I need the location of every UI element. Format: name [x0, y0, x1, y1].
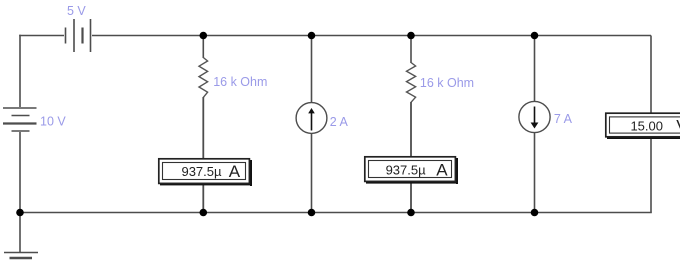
wire from 2A source down to bottom wire — [311, 133, 313, 213]
ground — [4, 253, 38, 259]
current source 2A (arrow up) with value label — [296, 103, 348, 134]
svg-text:2 A: 2 A — [330, 115, 349, 129]
current source 7A (arrow down) with value label — [519, 101, 573, 132]
svg-text:15.00: 15.00 — [630, 119, 663, 134]
node bottom of R2 branch — [407, 209, 415, 217]
battery 5V (horizontal) with value label — [66, 4, 91, 52]
wire ground stem — [19, 213, 21, 253]
wire top-left horizontal from corner to 5V battery — [19, 35, 64, 37]
node bottom of 7A branch — [531, 209, 539, 217]
wire from 7A source down to bottom wire — [534, 133, 536, 213]
svg-text:A: A — [229, 162, 241, 181]
wire from ammeter (left) down to bottom wire — [202, 182, 204, 213]
node bottom of 2A branch — [308, 209, 316, 217]
svg-text:937.5µ: 937.5µ — [386, 162, 427, 177]
svg-text:V: V — [676, 117, 680, 136]
svg-text:7 A: 7 A — [554, 112, 573, 126]
voltmeter 15.00V — [606, 113, 680, 139]
wire branch R2: top-wire to resistor — [410, 36, 412, 64]
node bottom-left (ground junction) — [16, 209, 24, 217]
wire left vertical from top-left corner down to 10V battery — [19, 35, 21, 107]
wire from voltmeter down to bottom-right corner — [650, 135, 652, 213]
wire branch R1: top-wire to resistor — [202, 36, 204, 59]
wire left vertical from 10V battery down to bottom-left node — [19, 132, 21, 213]
svg-text:A: A — [436, 161, 448, 180]
ammeter 937.5µA (right) — [365, 157, 458, 184]
battery 10V (vertical) with value label — [3, 108, 66, 131]
node top of 7A branch — [531, 32, 539, 40]
resistor 16 kOhm (left) with value label — [199, 58, 267, 98]
node top of R1 branch — [200, 32, 208, 40]
node bottom of R1 branch — [200, 209, 208, 217]
resistor 16 kOhm (right) with value label — [407, 63, 475, 103]
node top of 2A branch — [308, 32, 316, 40]
svg-text:16 k Ohm: 16 k Ohm — [213, 75, 267, 89]
wire from ammeter (right) down to bottom wire — [410, 180, 412, 213]
wire from resistor (left) down to ammeter (left) — [202, 97, 204, 160]
wire right vertical from top-right corner to voltmeter — [650, 36, 652, 116]
svg-text:5 V: 5 V — [67, 4, 86, 18]
svg-text:937.5µ: 937.5µ — [181, 164, 222, 179]
wire bottom horizontal — [20, 212, 652, 214]
wire from resistor (right) down to ammeter (right) — [410, 102, 412, 158]
wire branch 2A source: top-wire to circle — [311, 36, 313, 105]
ammeter 937.5µA (left) — [159, 159, 252, 186]
svg-text:16 k Ohm: 16 k Ohm — [420, 76, 474, 90]
svg-text:10 V: 10 V — [40, 114, 66, 128]
wire branch 7A source: top-wire to circle — [534, 36, 536, 103]
node top of R2 branch — [407, 32, 415, 40]
wire top horizontal from 5V battery to top-right corner — [92, 35, 651, 37]
